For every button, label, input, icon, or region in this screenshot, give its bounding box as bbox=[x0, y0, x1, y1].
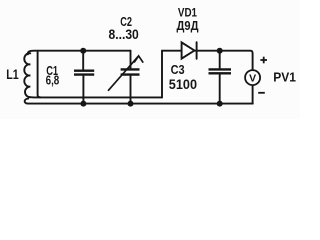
svg-text:V: V bbox=[249, 73, 256, 85]
svg-text:Д9Д: Д9Д bbox=[177, 19, 199, 33]
svg-text:VD1: VD1 bbox=[178, 5, 197, 19]
svg-text:8...30: 8...30 bbox=[109, 26, 139, 42]
svg-text:C3: C3 bbox=[171, 62, 185, 77]
svg-text:6,8: 6,8 bbox=[46, 73, 60, 87]
svg-text:L1: L1 bbox=[6, 67, 19, 82]
svg-text:PV1: PV1 bbox=[273, 71, 296, 85]
svg-text:5100: 5100 bbox=[169, 77, 197, 93]
